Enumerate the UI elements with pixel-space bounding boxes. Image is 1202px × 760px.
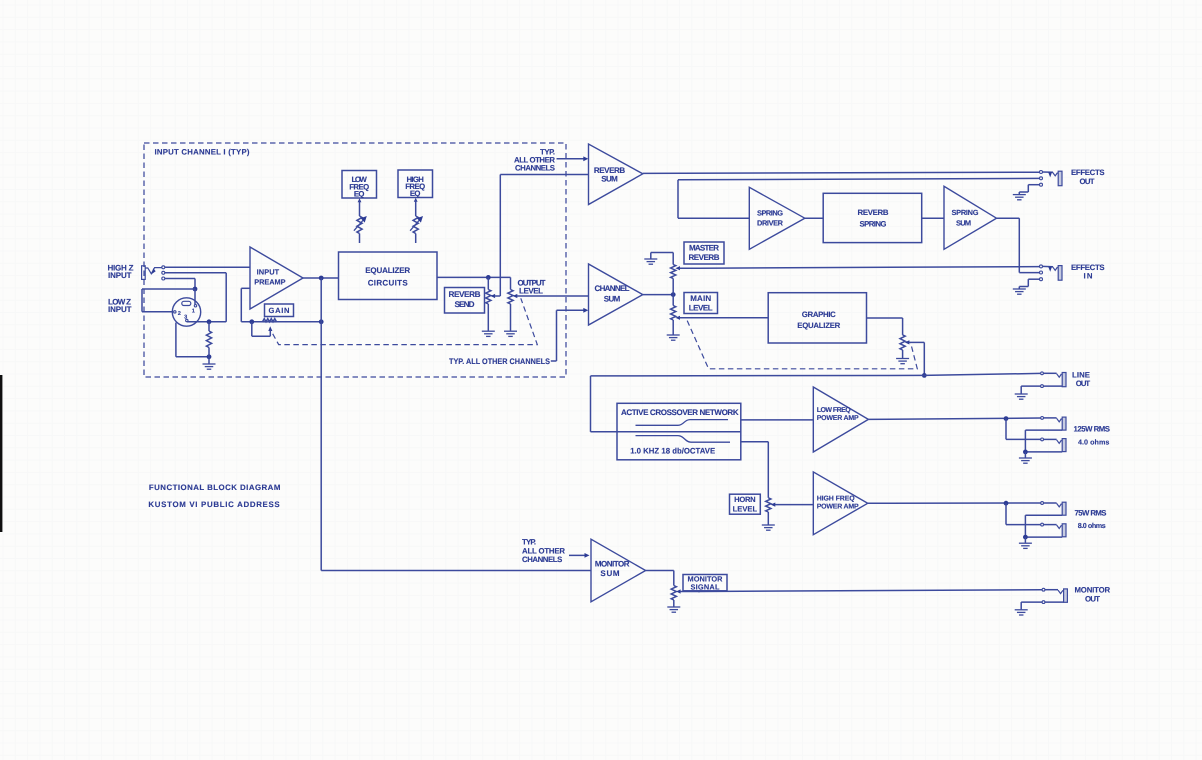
- svg-text:KUSTOM VI PUBLIC ADDRESS: KUSTOM VI PUBLIC ADDRESS: [148, 500, 279, 509]
- svg-text:EQUALIZER: EQUALIZER: [365, 266, 410, 275]
- svg-text:INPUT: INPUT: [108, 271, 132, 280]
- svg-text:8.0 ohms: 8.0 ohms: [1078, 521, 1106, 530]
- svg-text:LEVEL: LEVEL: [733, 505, 758, 514]
- svg-text:DRIVER: DRIVER: [757, 218, 784, 227]
- svg-text:125W RMS: 125W RMS: [1074, 425, 1111, 434]
- svg-text:INPUT: INPUT: [257, 267, 280, 276]
- svg-text:CIRCUITS: CIRCUITS: [368, 278, 409, 287]
- svg-text:POWER AMP: POWER AMP: [817, 504, 859, 511]
- svg-text:EQUALIZER: EQUALIZER: [797, 321, 840, 330]
- svg-text:MONITOR: MONITOR: [595, 559, 630, 568]
- svg-text:GAIN: GAIN: [269, 306, 290, 315]
- svg-text:FUNCTIONAL BLOCK DIAGRAM: FUNCTIONAL BLOCK DIAGRAM: [149, 483, 281, 492]
- svg-text:MAIN: MAIN: [690, 294, 711, 303]
- svg-text:INPUT CHANNEL I (TYP): INPUT CHANNEL I (TYP): [155, 148, 250, 157]
- svg-text:LEVEL: LEVEL: [519, 287, 543, 296]
- svg-text:LEVEL: LEVEL: [689, 303, 713, 312]
- svg-text:OUT: OUT: [1080, 177, 1095, 186]
- svg-text:CHANNELS: CHANNELS: [522, 555, 562, 564]
- svg-text:MONITOR: MONITOR: [1075, 585, 1111, 594]
- svg-text:REVERB: REVERB: [449, 290, 481, 299]
- svg-text:SUM: SUM: [601, 174, 618, 183]
- svg-text:PREAMP: PREAMP: [254, 277, 285, 286]
- svg-text:TYP.: TYP.: [522, 538, 536, 547]
- svg-text:REVERB: REVERB: [858, 208, 889, 217]
- svg-text:SUM: SUM: [604, 294, 621, 303]
- svg-text:3: 3: [184, 314, 187, 320]
- svg-text:MASTER: MASTER: [689, 244, 719, 253]
- svg-text:GRAPHIC: GRAPHIC: [802, 310, 836, 319]
- svg-text:POWER AMP: POWER AMP: [817, 415, 859, 422]
- svg-text:SUM: SUM: [600, 569, 620, 578]
- svg-text:SEND: SEND: [455, 300, 475, 309]
- svg-text:1: 1: [192, 308, 195, 314]
- svg-text:OUT: OUT: [1076, 379, 1091, 388]
- svg-text:HIGH FREQ: HIGH FREQ: [817, 495, 856, 502]
- svg-text:CHANNEL: CHANNEL: [595, 284, 630, 293]
- svg-text:IN: IN: [1084, 271, 1093, 280]
- svg-text:EQ: EQ: [410, 189, 421, 198]
- svg-text:ACTIVE CROSSOVER NETWORK: ACTIVE CROSSOVER NETWORK: [621, 408, 739, 417]
- svg-text:SIGNAL: SIGNAL: [691, 583, 720, 592]
- svg-text:TYP. ALL OTHER CHANNELS: TYP. ALL OTHER CHANNELS: [449, 357, 551, 366]
- svg-text:SPRING: SPRING: [952, 208, 979, 217]
- svg-text:CHANNELS: CHANNELS: [515, 164, 555, 173]
- svg-text:SPRING: SPRING: [860, 219, 887, 228]
- svg-text:LOW FREQ: LOW FREQ: [817, 407, 852, 414]
- svg-text:HORN: HORN: [734, 495, 756, 504]
- svg-text:75W RMS: 75W RMS: [1075, 509, 1107, 518]
- svg-text:1.0 KHZ 18 db/OCTAVE: 1.0 KHZ 18 db/OCTAVE: [630, 446, 716, 455]
- svg-text:INPUT: INPUT: [108, 305, 132, 314]
- svg-text:OUT: OUT: [1085, 595, 1100, 604]
- svg-text:SUM: SUM: [956, 219, 971, 228]
- svg-text:SPRING: SPRING: [757, 209, 783, 218]
- svg-text:EQ: EQ: [354, 190, 365, 199]
- svg-text:4.0 ohms: 4.0 ohms: [1078, 437, 1109, 446]
- svg-text:2: 2: [178, 311, 181, 317]
- svg-text:REVERB: REVERB: [689, 253, 720, 262]
